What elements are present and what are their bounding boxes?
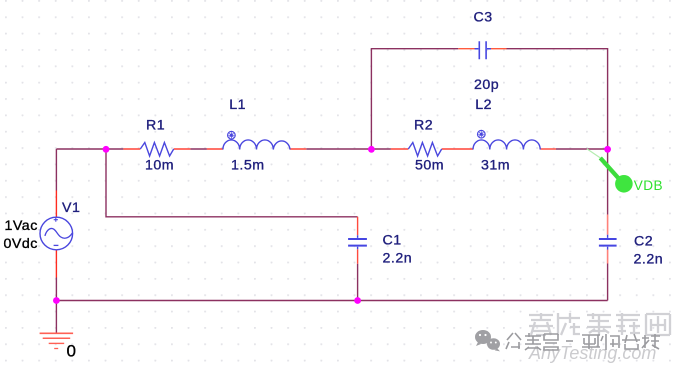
- pin stub V1 top: [55, 191, 57, 218]
- wire C3 top right segment and right vertical down to C2: [506, 49, 607, 215]
- inductor L2 phase dot symbol: [478, 130, 486, 138]
- VDB probe marker: [587, 149, 633, 193]
- pin stub C1 bottom: [357, 249, 359, 263]
- pin stub L1 left: [207, 148, 223, 150]
- wire segment L1 to R2 (through node B): [306, 148, 391, 150]
- wire segment L2 to right node: [556, 148, 608, 150]
- pin stub C3 right: [491, 48, 507, 50]
- svg-text:31m: 31m: [481, 158, 510, 174]
- wire bottom net horizontal: [56, 300, 607, 302]
- watermark big gray CJK text (faked glyph strokes): [529, 313, 670, 335]
- wire segment R1 to L1: [190, 148, 207, 150]
- svg-text:1.5m: 1.5m: [231, 158, 265, 174]
- pin stub L2 right: [540, 148, 556, 150]
- wire C2 bottom to bottom net: [607, 264, 609, 301]
- wire C1 bottom to bottom net: [357, 264, 359, 301]
- pin stub R1 right: [174, 148, 191, 150]
- svg-text:C2: C2: [634, 234, 653, 250]
- junction C1 bottom: [354, 297, 361, 304]
- pin stub C1 top: [357, 217, 359, 235]
- svg-text:L1: L1: [229, 97, 246, 113]
- wire ground branch: [55, 301, 57, 334]
- svg-text:2.2n: 2.2n: [634, 252, 664, 268]
- inductor L2: [473, 140, 540, 150]
- resistor R2: [408, 143, 441, 157]
- pin stub R2 left: [391, 148, 408, 150]
- pin stub R2 right / L2 left: [442, 148, 473, 150]
- svg-text:50m: 50m: [415, 158, 444, 174]
- junction right node (C3/C2/VDB): [604, 146, 611, 153]
- pin stub L1 right: [290, 148, 306, 150]
- capacitor C1 (vertical): [348, 239, 367, 246]
- junction V1 minus / ground: [53, 297, 60, 304]
- junction node A (C1 tap): [103, 146, 110, 153]
- svg-text:V1: V1: [62, 200, 80, 216]
- svg-text:R1: R1: [146, 117, 165, 133]
- svg-text:0: 0: [67, 342, 76, 361]
- capacitor C2 pin bits: [607, 235, 609, 250]
- wire C3 loop left vertical and top left segment: [371, 49, 458, 149]
- capacitor C3 pin bits: [475, 48, 491, 50]
- pin stub C3 left: [458, 48, 476, 50]
- svg-text:VDB: VDB: [634, 178, 663, 193]
- capacitor C3 (top, horizontal): [479, 41, 486, 59]
- pin stub R1 left: [123, 148, 140, 150]
- wire main horizontal net left segment (V1 top to R1): [56, 148, 123, 150]
- svg-text:0Vdc: 0Vdc: [4, 236, 38, 252]
- svg-text:C3: C3: [474, 10, 493, 26]
- wire V1 branch vertical: [55, 149, 57, 301]
- watermark wechat icon: [475, 330, 500, 351]
- svg-text:C1: C1: [383, 233, 402, 249]
- svg-text:AnyTesting.com: AnyTesting.com: [528, 343, 656, 363]
- svg-text:2.2n: 2.2n: [383, 251, 413, 267]
- resistor R1: [140, 143, 173, 157]
- wire node A to C1 (down and right): [106, 149, 358, 217]
- inductor L1: [223, 140, 290, 150]
- svg-text:1Vac: 1Vac: [5, 218, 38, 234]
- watermark gray CJK caption (faked glyph strokes): [506, 333, 660, 350]
- voltage source V1: [40, 217, 73, 250]
- junction node B (C3 tap left): [368, 146, 375, 153]
- inductor L1 phase dot symbol: [228, 131, 236, 139]
- svg-text:L2: L2: [475, 97, 492, 113]
- capacitor C2 (vertical): [599, 239, 617, 246]
- ground symbol 0: [40, 333, 74, 348]
- pin stub V1 bottom: [55, 250, 57, 278]
- svg-text:20p: 20p: [474, 77, 499, 93]
- svg-text:R2: R2: [414, 117, 433, 133]
- capacitor C1 pin bits: [357, 235, 359, 249]
- svg-text:10m: 10m: [145, 158, 174, 174]
- pin stub C2 top: [607, 215, 609, 235]
- pin stub C2 bottom: [607, 250, 609, 264]
